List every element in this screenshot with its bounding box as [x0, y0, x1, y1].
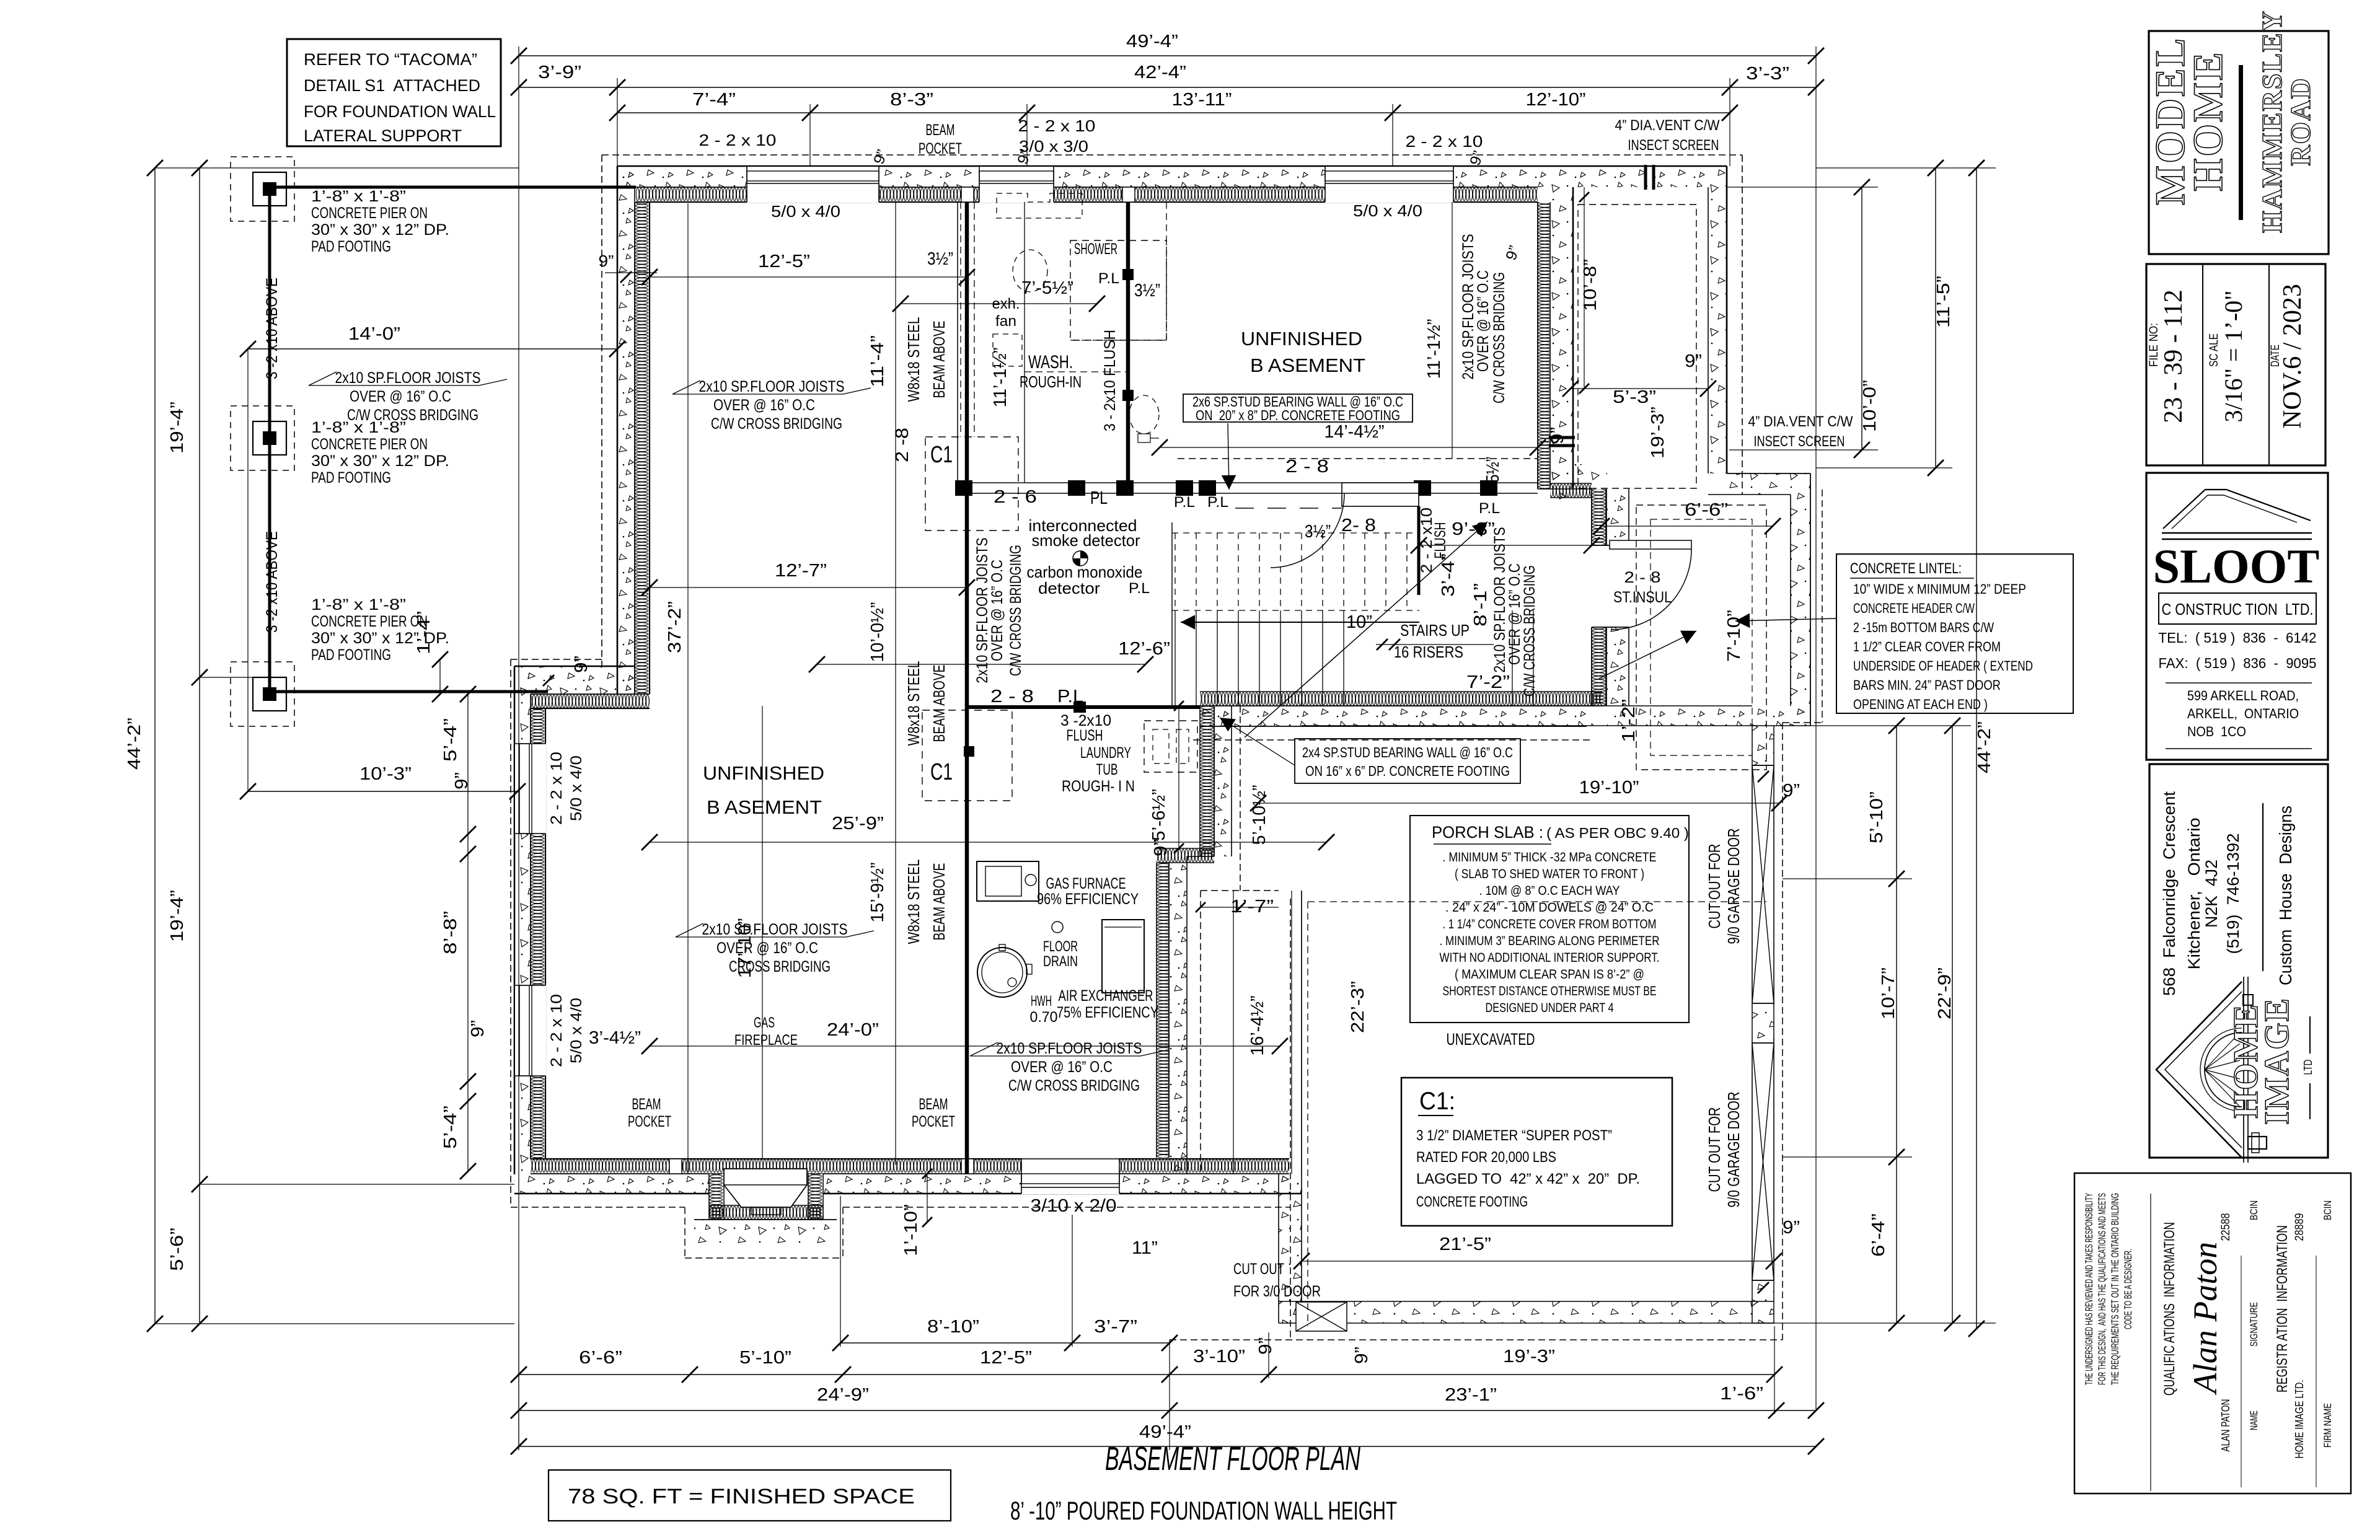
svg-text:ROAD: ROAD — [2285, 77, 2316, 165]
svg-text:CUT OUT: CUT OUT — [1233, 1261, 1284, 1278]
svg-text:P.L: P.L — [1207, 494, 1228, 511]
svg-text:DRAIN: DRAIN — [1043, 953, 1078, 970]
svg-text:30” x 30” x 12” DP.: 30” x 30” x 12” DP. — [311, 452, 449, 470]
svg-text:ROUGH-IN: ROUGH-IN — [1020, 372, 1082, 391]
svg-text:3 -2 x10 ABOVE: 3 -2 x10 ABOVE — [263, 531, 281, 633]
svg-text:POCKET: POCKET — [912, 1113, 955, 1130]
svg-text:UNFINISHED: UNFINISHED — [703, 762, 824, 784]
home image logo — [2156, 977, 2267, 1163]
svg-text:FAX: ( 519 ) 836 - 9095: FAX: ( 519 ) 836 - 9095 — [2159, 655, 2317, 671]
svg-text:PAD FOOTING: PAD FOOTING — [311, 469, 391, 486]
svg-text:BCIN: BCIN — [2322, 1200, 2334, 1220]
svg-text:19’-3”: 19’-3” — [1648, 407, 1668, 459]
svg-text:5’-10”: 5’-10” — [1867, 791, 1887, 843]
svg-text:3’-9”: 3’-9” — [538, 63, 581, 82]
svg-text:3’-3”: 3’-3” — [1746, 64, 1789, 84]
svg-text:5/0 x 4/0: 5/0 x 4/0 — [771, 202, 840, 221]
air exchanger — [1102, 920, 1144, 993]
svg-text:C1:: C1: — [1419, 1088, 1455, 1115]
svg-text:FIRM NAME: FIRM NAME — [2322, 1403, 2334, 1448]
svg-text:C/W CROSS BRIDGING: C/W CROSS BRIDGING — [347, 407, 478, 424]
svg-text:BEAM: BEAM — [919, 1096, 948, 1113]
svg-text:19’-4”: 19’-4” — [167, 890, 187, 942]
porch dashed outlines — [1578, 205, 1696, 488]
svg-text:OVER @ 16” O.C: OVER @ 16” O.C — [1011, 1058, 1113, 1076]
svg-text:C1: C1 — [930, 442, 953, 468]
svg-text:BEAM: BEAM — [632, 1096, 661, 1113]
title block 2: file/scale/date — [2146, 264, 2325, 465]
svg-text:THE REQUIREMENTS SET OUT IN TH: THE REQUIREMENTS SET OUT IN THE ONTARIO … — [2109, 1193, 2121, 1385]
svg-text:QUALIFIC ATIONS INFORMATION: QUALIFIC ATIONS INFORMATION — [2161, 1222, 2178, 1396]
2x4 bearing box — [1295, 739, 1520, 783]
bearing wall dashed — [1178, 458, 1538, 459]
svg-text:5’-4”: 5’-4” — [441, 1106, 461, 1149]
svg-text:HAMMERSLEY: HAMMERSLEY — [2256, 10, 2288, 233]
svg-text:10’-3”: 10’-3” — [359, 764, 412, 784]
svg-text:FOR 3/0 DOOR: FOR 3/0 DOOR — [1233, 1283, 1321, 1300]
svg-text:2x10 SP.FLOOR JOISTS: 2x10 SP.FLOOR JOISTS — [335, 369, 481, 387]
left dimension columns — [154, 168, 156, 1324]
interior dims — [650, 276, 967, 278]
svg-text:2 - 2 x 10: 2 - 2 x 10 — [548, 994, 565, 1067]
beam dashed flank lines — [960, 202, 961, 437]
svg-text:8’ -10” POURED FOUNDATION WALL: 8’ -10” POURED FOUNDATION WALL HEIGHT — [1010, 1496, 1397, 1525]
svg-text:1’-10”: 1’-10” — [901, 1204, 921, 1256]
svg-text:CUT OUT FOR: CUT OUT FOR — [1705, 1107, 1724, 1192]
svg-text:10’-8”: 10’-8” — [1580, 259, 1600, 311]
sq ft box — [549, 1470, 951, 1521]
svg-text:C ONSTRUC TION LTD.: C ONSTRUC TION LTD. — [2162, 600, 2314, 618]
svg-text:OVER @ 16” O.C: OVER @ 16” O.C — [350, 388, 451, 405]
svg-text:TUB: TUB — [1096, 761, 1118, 778]
svg-text:96% EFFICIENCY: 96% EFFICIENCY — [1037, 891, 1139, 908]
svg-text:AIR EXCHANGER: AIR EXCHANGER — [1059, 987, 1153, 1005]
svg-text:9”: 9” — [1256, 1337, 1276, 1355]
svg-text:2 - 8: 2 - 8 — [990, 687, 1034, 706]
laundry tub dashed — [1144, 721, 1197, 772]
svg-text:Kitchener, Ontario: Kitchener, Ontario — [2185, 818, 2203, 970]
svg-text:NOB 1CO: NOB 1CO — [2187, 724, 2246, 739]
svg-text:FIREPLACE: FIREPLACE — [734, 1032, 798, 1049]
svg-text:9”: 9” — [1783, 1218, 1800, 1238]
svg-text:POCKET: POCKET — [919, 140, 962, 157]
svg-text:TEL: ( 519 ) 836 - 6142: TEL: ( 519 ) 836 - 6142 — [2159, 630, 2317, 646]
svg-text:CONCRETE LINTEL:: CONCRETE LINTEL: — [1850, 560, 1962, 577]
svg-text:FOR THIS DESIGN, AND HAS THE: FOR THIS DESIGN, AND HAS THE QUALIFICATI… — [2096, 1193, 2108, 1385]
svg-text:28889: 28889 — [2293, 1213, 2306, 1241]
svg-text:6’-4”: 6’-4” — [1869, 1213, 1889, 1257]
svg-text:3’-7”: 3’-7” — [1094, 1317, 1137, 1337]
svg-text:1’-2”: 1’-2” — [1619, 699, 1639, 742]
svg-text:PAD FOOTING: PAD FOOTING — [311, 646, 391, 664]
title block 3: SLOOT — [2146, 473, 2328, 760]
svg-text:1’-6”: 1’-6” — [1720, 1384, 1763, 1404]
svg-text:W8x18 STEEL: W8x18 STEEL — [904, 317, 923, 402]
svg-text:12’-5”: 12’-5” — [758, 252, 810, 271]
svg-text:9”: 9” — [452, 772, 472, 790]
svg-text:C1: C1 — [930, 759, 953, 785]
svg-text:OVER @ 16” O.C: OVER @ 16” O.C — [1474, 270, 1492, 372]
svg-text:. MINIMUM 3” BEARING ALONG PER: . MINIMUM 3” BEARING ALONG PERIMETER — [1440, 934, 1660, 948]
svg-text:( MAXIMUM CLEAR SPAN IS 8’-2”: ( MAXIMUM CLEAR SPAN IS 8’-2” @ — [1455, 967, 1644, 982]
window openings top wall — [747, 165, 879, 203]
svg-text:POCKET: POCKET — [628, 1113, 671, 1130]
svg-text:5/0 x 4/0: 5/0 x 4/0 — [568, 998, 585, 1063]
HWH — [977, 948, 1027, 997]
wash fixtures dashed — [993, 334, 1022, 366]
pier dims — [248, 348, 617, 350]
C1 box — [1401, 1078, 1672, 1226]
svg-text:C/W CROSS BRIDGING: C/W CROSS BRIDGING — [1521, 565, 1538, 697]
svg-text:UNEXCAVATED: UNEXCAVATED — [1447, 1030, 1535, 1049]
svg-text:5’-10½”: 5’-10½” — [1249, 785, 1269, 845]
svg-text:Alan Paton: Alan Paton — [2187, 1242, 2224, 1395]
svg-text:5’-10”: 5’-10” — [739, 1348, 791, 1368]
svg-text:3 -2 x10 ABOVE: 3 -2 x10 ABOVE — [263, 278, 281, 379]
svg-text:DETAIL S1 ATTACHED: DETAIL S1 ATTACHED — [304, 76, 480, 95]
svg-text:9’-8”: 9’-8” — [1452, 519, 1495, 539]
2x6 bearing box — [1183, 394, 1413, 422]
svg-text:GAS FURNACE: GAS FURNACE — [1046, 875, 1126, 892]
svg-text:INSECT SCREEN: INSECT SCREEN — [1628, 137, 1719, 154]
svg-text:8’-8”: 8’-8” — [441, 911, 461, 954]
svg-text:10’-7”: 10’-7” — [1879, 967, 1898, 1019]
svg-text:( AS PER OBC 9.40 ): ( AS PER OBC 9.40 ) — [1546, 825, 1689, 841]
pier beam lines — [268, 189, 271, 694]
svg-text:ROUGH- I N: ROUGH- I N — [1062, 778, 1135, 795]
svg-text:ON 20” x 8” DP. CONCRETE FOOT: ON 20” x 8” DP. CONCRETE FOOTING — [1196, 407, 1400, 423]
svg-text:DESIGNED UNDER PART 4: DESIGNED UNDER PART 4 — [1486, 1001, 1614, 1015]
svg-text:FLOOR: FLOOR — [1043, 938, 1078, 955]
svg-text:2x4 SP.STUD BEARING WALL @ 16”: 2x4 SP.STUD BEARING WALL @ 16” O.C — [1302, 744, 1513, 760]
svg-text:1’-7”: 1’-7” — [1230, 897, 1274, 917]
svg-text:ST.INSUL: ST.INSUL — [1613, 589, 1672, 606]
svg-text:FLUSH: FLUSH — [1067, 727, 1103, 744]
svg-text:. MINIMUM 5” THICK -32 MPa CON: . MINIMUM 5” THICK -32 MPa CONCRETE — [1443, 850, 1657, 865]
svg-text:. 24” x 24” - 10M DOWELS @ 24”: . 24” x 24” - 10M DOWELS @ 24” O.C — [1445, 900, 1654, 915]
svg-text:LAGGED TO 42” x 42” x 20” D: LAGGED TO 42” x 42” x 20” DP. — [1416, 1171, 1640, 1187]
svg-text:42’-4”: 42’-4” — [1134, 63, 1186, 82]
svg-text:78 SQ. FT = FINISHED SPACE: 78 SQ. FT = FINISHED SPACE — [568, 1485, 915, 1508]
svg-text:9”: 9” — [468, 1020, 488, 1037]
svg-text:OVER @ 16” O.C: OVER @ 16” O.C — [713, 397, 815, 414]
svg-text:3½”: 3½” — [1305, 522, 1331, 542]
svg-text:W8x18 STEEL: W8x18 STEEL — [904, 860, 923, 944]
svg-text:12’-6”: 12’-6” — [1118, 639, 1170, 659]
svg-text:LAUNDRY: LAUNDRY — [1080, 744, 1131, 762]
svg-text:7’-4”: 7’-4” — [692, 90, 736, 110]
svg-text:19’-3”: 19’-3” — [1503, 1347, 1555, 1366]
svg-text:75% EFFICIENCY: 75% EFFICIENCY — [1057, 1004, 1158, 1021]
svg-text:9”: 9” — [1151, 839, 1171, 856]
windows lower-left wall — [514, 744, 546, 834]
svg-text:5/0 x 4/0: 5/0 x 4/0 — [568, 755, 585, 821]
wash room wall line — [957, 202, 958, 483]
svg-text:1’-8” x 1’-8”: 1’-8” x 1’-8” — [311, 188, 406, 205]
svg-text:BASEMENT FLOOR PLAN: BASEMENT FLOOR PLAN — [1105, 1440, 1361, 1477]
svg-text:49’-4”: 49’-4” — [1126, 32, 1178, 51]
svg-text:7’-5½”: 7’-5½” — [1021, 278, 1073, 298]
svg-text:8’-3”: 8’-3” — [890, 90, 933, 110]
svg-text:4” DIA.VENT C/W: 4” DIA.VENT C/W — [1615, 117, 1720, 134]
svg-text:11’-1½”: 11’-1½” — [1424, 319, 1444, 379]
building walls — [617, 166, 1727, 187]
svg-text:ON 16” x 6” DP. CONCRETE FOOTI: ON 16” x 6” DP. CONCRETE FOOTING — [1305, 763, 1510, 779]
svg-text:N2K 4J2: N2K 4J2 — [2202, 860, 2221, 928]
svg-text:CODE TO BE A DESIGNER.: CODE TO BE A DESIGNER. — [2122, 1249, 2134, 1329]
svg-text:2- 8: 2- 8 — [1341, 516, 1376, 535]
svg-text:(519) 746-1392: (519) 746-1392 — [2224, 834, 2242, 954]
svg-text:23’-1”: 23’-1” — [1445, 1385, 1497, 1405]
svg-text:25’-9”: 25’-9” — [832, 814, 884, 834]
svg-text:37’-2”: 37’-2” — [665, 601, 685, 653]
svg-text:2 - 2 x 10: 2 - 2 x 10 — [1018, 117, 1096, 135]
svg-text:14’-0”: 14’-0” — [348, 324, 400, 344]
svg-text:23 - 39 - 112: 23 - 39 - 112 — [2159, 289, 2188, 423]
svg-text:WASH.: WASH. — [1028, 352, 1073, 372]
svg-text:16 RISERS: 16 RISERS — [1394, 643, 1463, 661]
svg-text:BCIN: BCIN — [2248, 1200, 2260, 1220]
svg-text:IMAGE: IMAGE — [2258, 997, 2296, 1125]
svg-text:B ASEMENT: B ASEMENT — [707, 796, 822, 818]
svg-text:HWH: HWH — [1031, 993, 1052, 1010]
svg-text:9”: 9” — [1783, 781, 1800, 801]
stairs — [1175, 610, 1176, 706]
svg-text:10”: 10” — [1346, 612, 1372, 632]
svg-text:14’-4½”: 14’-4½” — [1324, 422, 1385, 442]
svg-text:BEAM ABOVE: BEAM ABOVE — [930, 321, 948, 398]
svg-text:10’-0½”: 10’-0½” — [868, 602, 888, 662]
svg-text:7’-2”: 7’-2” — [1466, 672, 1510, 692]
svg-text:UNFINISHED: UNFINISHED — [1241, 328, 1362, 350]
svg-text:C/W CROSS BRIDGING: C/W CROSS BRIDGING — [1491, 272, 1508, 403]
svg-text:1’-8” x 1’-8”: 1’-8” x 1’-8” — [311, 596, 406, 614]
svg-text:SHORTEST DISTANCE OTHERWISE MU: SHORTEST DISTANCE OTHERWISE MUST BE — [1443, 984, 1657, 998]
garage dims — [1302, 1261, 1774, 1262]
svg-text:30” x 30” x 12” DP.: 30” x 30” x 12” DP. — [311, 630, 449, 647]
svg-text:22’-3”: 22’-3” — [1348, 981, 1368, 1033]
svg-text:2 - 2 x 10: 2 - 2 x 10 — [1406, 132, 1483, 151]
svg-text:BEAM ABOVE: BEAM ABOVE — [930, 863, 948, 941]
svg-text:22’-9”: 22’-9” — [1935, 967, 1955, 1019]
svg-text:3’-4”: 3’-4” — [1439, 553, 1458, 597]
svg-text:NOV.6 / 2023: NOV.6 / 2023 — [2278, 284, 2307, 429]
svg-text:3’-10”: 3’-10” — [1193, 1347, 1245, 1366]
svg-text:GAS: GAS — [754, 1014, 775, 1031]
svg-text:HOME IMAGE LTD.: HOME IMAGE LTD. — [2293, 1380, 2306, 1459]
svg-text:3/10 x 2/0: 3/10 x 2/0 — [1031, 1196, 1117, 1216]
svg-text:3½”: 3½” — [927, 249, 953, 269]
svg-text:HOME: HOME — [2184, 50, 2231, 191]
svg-text:UNDERSIDE OF HEADER ( EXTEND: UNDERSIDE OF HEADER ( EXTEND — [1853, 658, 2033, 674]
svg-text:5½”: 5½” — [1483, 457, 1503, 483]
svg-text:4” DIA.VENT C/W: 4” DIA.VENT C/W — [1748, 413, 1853, 430]
svg-text:12’-5”: 12’-5” — [980, 1348, 1032, 1368]
svg-text:2x10 SP.FLOOR JOISTS: 2x10 SP.FLOOR JOISTS — [997, 1040, 1142, 1057]
svg-text:3/16" = 1’-0": 3/16" = 1’-0" — [2219, 291, 2247, 423]
svg-text:3 - 2x10 FLUSH: 3 - 2x10 FLUSH — [1101, 330, 1119, 431]
window dim column lower-left — [467, 694, 469, 1171]
svg-text:11’-1½”: 11’-1½” — [990, 348, 1010, 408]
title block 5: qualifications — [2074, 1173, 2351, 1494]
svg-text:19’-10”: 19’-10” — [1579, 778, 1639, 798]
svg-text:9”: 9” — [571, 656, 591, 673]
svg-text:3 1/2” DIAMETER “SUPER POST”: 3 1/2” DIAMETER “SUPER POST” — [1416, 1127, 1612, 1144]
steel beams — [965, 202, 969, 1174]
svg-text:CROSS BRIDGING: CROSS BRIDGING — [729, 958, 831, 975]
svg-text:CONCRETE FOOTING: CONCRETE FOOTING — [1416, 1194, 1528, 1210]
vent symbols — [1644, 165, 1647, 190]
svg-text:. 10M @ 8” O.C EACH WAY: . 10M @ 8” O.C EACH WAY — [1479, 884, 1620, 898]
svg-text:Custom House Designs: Custom House Designs — [2276, 806, 2295, 985]
svg-text:1 1/2” CLEAR COVER FROM: 1 1/2” CLEAR COVER FROM — [1853, 639, 2001, 654]
shower dashed — [1070, 240, 1166, 340]
C1 dashed boxes — [925, 437, 1018, 530]
svg-text:RATED FOR 20,000 LBS: RATED FOR 20,000 LBS — [1416, 1149, 1556, 1166]
svg-text:22588: 22588 — [2219, 1213, 2232, 1241]
svg-text:fan: fan — [995, 313, 1016, 330]
svg-text:9/0 GARAGE DOOR: 9/0 GARAGE DOOR — [1724, 1092, 1743, 1208]
svg-text:11’-5”: 11’-5” — [1934, 276, 1954, 328]
svg-text:12’-10”: 12’-10” — [1526, 90, 1586, 110]
svg-text:11’-4”: 11’-4” — [868, 335, 888, 387]
svg-text:OVER @ 16” O.C: OVER @ 16” O.C — [716, 939, 818, 957]
svg-text:9/0 GARAGE DOOR: 9/0 GARAGE DOOR — [1724, 829, 1743, 944]
svg-text:P.L: P.L — [1129, 580, 1150, 597]
svg-text:8’-10”: 8’-10” — [927, 1317, 979, 1337]
svg-text:OVER @ 16” O.C: OVER @ 16” O.C — [989, 560, 1006, 661]
smoke/CO detector — [1073, 551, 1088, 566]
svg-text:C/W CROSS BRIDGING: C/W CROSS BRIDGING — [1007, 545, 1025, 676]
svg-text:REGISTR ATION INFORMATION: REGISTR ATION INFORMATION — [2274, 1225, 2291, 1393]
svg-text:7’-10”: 7’-10” — [1724, 610, 1744, 662]
svg-text:C/W CROSS BRIDGING: C/W CROSS BRIDGING — [1008, 1077, 1140, 1094]
svg-text:2 - 8: 2 - 8 — [1624, 569, 1661, 586]
svg-text:CUT OUT FOR: CUT OUT FOR — [1705, 844, 1724, 929]
svg-text:6’-6”: 6’-6” — [579, 1348, 622, 1368]
svg-text:44’-2”: 44’-2” — [125, 718, 144, 770]
svg-text:2 - 6: 2 - 6 — [994, 487, 1037, 507]
svg-text:SIGNATURE: SIGNATURE — [2248, 1302, 2260, 1347]
svg-text:19’-4”: 19’-4” — [167, 402, 187, 454]
svg-text:P.L: P.L — [1174, 494, 1195, 511]
svg-text:16’-4½”: 16’-4½” — [1248, 996, 1267, 1056]
right dimension columns — [1861, 187, 1862, 450]
porch slab box — [1410, 816, 1689, 1023]
svg-text:24’-9”: 24’-9” — [817, 1385, 869, 1405]
svg-text:13’-11”: 13’-11” — [1172, 90, 1232, 110]
svg-text:FOR FOUNDATION WALL: FOR FOUNDATION WALL — [304, 102, 496, 121]
concrete piers — [231, 157, 294, 221]
gas furnace — [977, 861, 1039, 901]
svg-text:21’-5”: 21’-5” — [1439, 1234, 1491, 1254]
svg-text:44’-2”: 44’-2” — [1975, 721, 1994, 773]
bearing plate line (2-6 PL row) — [958, 482, 1538, 483]
svg-text:10’-0”: 10’-0” — [1860, 380, 1880, 432]
svg-text:2 -15m BOTTOM BARS C/W: 2 -15m BOTTOM BARS C/W — [1853, 620, 1994, 635]
bottom dimension rows — [840, 1342, 1170, 1344]
svg-text:P.L: P.L — [1479, 500, 1500, 517]
svg-text:CONCRETE PIER ON: CONCRETE PIER ON — [311, 436, 428, 453]
svg-text:LATERAL SUPPORT: LATERAL SUPPORT — [304, 126, 462, 145]
svg-text:P.L: P.L — [1057, 687, 1083, 706]
svg-text:. 1 1/4” CONCRETE COVER FROM B: . 1 1/4” CONCRETE COVER FROM BOTTOM — [1443, 917, 1657, 931]
svg-text:SC ALE: SC ALE — [2208, 333, 2221, 367]
svg-text:detector: detector — [1038, 579, 1100, 597]
svg-text:FLUSH: FLUSH — [1432, 522, 1449, 559]
svg-text:smoke detector: smoke detector — [1032, 531, 1140, 550]
svg-text:599 ARKELL ROAD,: 599 ARKELL ROAD, — [2187, 688, 2299, 703]
svg-text:( SLAB TO SHED WATER TO FRONT: ( SLAB TO SHED WATER TO FRONT ) — [1455, 867, 1644, 881]
svg-text:FILE NO:: FILE NO: — [2148, 323, 2161, 367]
svg-text:568 Falconridge Crescent: 568 Falconridge Crescent — [2160, 791, 2179, 996]
window bottom wall 3/10x2/0 — [1021, 1158, 1119, 1194]
svg-text:5’-3”: 5’-3” — [1613, 387, 1656, 407]
svg-text:24’-0”: 24’-0” — [827, 1020, 879, 1040]
svg-text:OPENING AT EACH END ): OPENING AT EACH END ) — [1853, 697, 1988, 712]
tacoma note box — [287, 39, 501, 146]
svg-text:2 - 2 x 10: 2 - 2 x 10 — [548, 752, 565, 825]
svg-text:B ASEMENT: B ASEMENT — [1250, 354, 1365, 376]
svg-text:ALAN PATON: ALAN PATON — [2219, 1399, 2232, 1452]
svg-text:INSECT SCREEN: INSECT SCREEN — [1754, 433, 1845, 450]
svg-text:WITH NO ADDITIONAL INTERIOR SU: WITH NO ADDITIONAL INTERIOR SUPPORT. — [1440, 951, 1660, 965]
svg-text:C/W CROSS BRIDGING: C/W CROSS BRIDGING — [711, 415, 842, 433]
svg-text:10” WIDE x MINIMUM 12” DEEP: 10” WIDE x MINIMUM 12” DEEP — [1853, 581, 2026, 597]
svg-text:5’-4”: 5’-4” — [441, 718, 461, 762]
svg-text:BEAM: BEAM — [926, 121, 955, 139]
svg-text:3½”: 3½” — [1134, 281, 1160, 301]
svg-text:15’-9½”: 15’-9½” — [868, 863, 888, 923]
top dimension rows — [519, 55, 1816, 56]
svg-text:3’-4½”: 3’-4½” — [589, 1028, 641, 1048]
svg-text:LTD: LTD — [2302, 1060, 2314, 1075]
svg-text:PAD FOOTING: PAD FOOTING — [311, 238, 391, 255]
svg-text:DATE: DATE — [2269, 345, 2282, 367]
svg-text:P.L: P.L — [1098, 270, 1119, 287]
floor drain — [1052, 922, 1063, 933]
svg-text:49’-4”: 49’-4” — [1139, 1422, 1191, 1442]
svg-text:9”: 9” — [599, 252, 614, 270]
svg-text:9”: 9” — [1548, 427, 1567, 444]
svg-text:12’-7”: 12’-7” — [775, 561, 827, 581]
svg-text:THE UNDERSIGNED HAS REVIEWED A: THE UNDERSIGNED HAS REVIEWED AND TAKES R… — [2083, 1193, 2095, 1385]
svg-text:W8x18 STEEL: W8x18 STEEL — [904, 661, 923, 746]
svg-text:BEAM ABOVE: BEAM ABOVE — [930, 665, 948, 742]
svg-text:exh.: exh. — [992, 296, 1020, 312]
title block 1: MODEL HOME — [2149, 31, 2329, 254]
svg-text:CONCRETE PIER ON: CONCRETE PIER ON — [311, 205, 428, 222]
svg-text:9”: 9” — [1352, 1347, 1372, 1364]
svg-text:2 - 8: 2 - 8 — [1285, 457, 1329, 477]
svg-text:11”: 11” — [1132, 1238, 1158, 1258]
svg-text:2x10 SP.FLOOR JOISTS: 2x10 SP.FLOOR JOISTS — [699, 378, 845, 395]
svg-text:STAIRS UP: STAIRS UP — [1400, 621, 1470, 640]
svg-text:5’-6½”: 5’-6½” — [1149, 789, 1169, 841]
svg-text:SHOWER: SHOWER — [1074, 240, 1117, 258]
svg-text:5/0 x 4/0: 5/0 x 4/0 — [1353, 201, 1422, 220]
svg-text:6’-6”: 6’-6” — [1685, 500, 1728, 520]
svg-text:2 - 2 x 10: 2 - 2 x 10 — [699, 131, 777, 149]
svg-text:CONCRETE HEADER C/W: CONCRETE HEADER C/W — [1853, 601, 1975, 616]
garage dashed outline — [1308, 901, 1766, 902]
svg-text:2x10 SP.FLOOR JOISTS: 2x10 SP.FLOOR JOISTS — [702, 921, 848, 938]
svg-text:BARS MIN. 24” PAST DOOR: BARS MIN. 24” PAST DOOR — [1853, 677, 2001, 693]
title block 4: HOME IMAGE — [2149, 764, 2328, 1158]
svg-text:REFER TO “TACOMA”: REFER TO “TACOMA” — [304, 50, 477, 69]
svg-text:NAME: NAME — [2248, 1410, 2260, 1430]
svg-text:PORCH SLAB :: PORCH SLAB : — [1432, 823, 1543, 842]
